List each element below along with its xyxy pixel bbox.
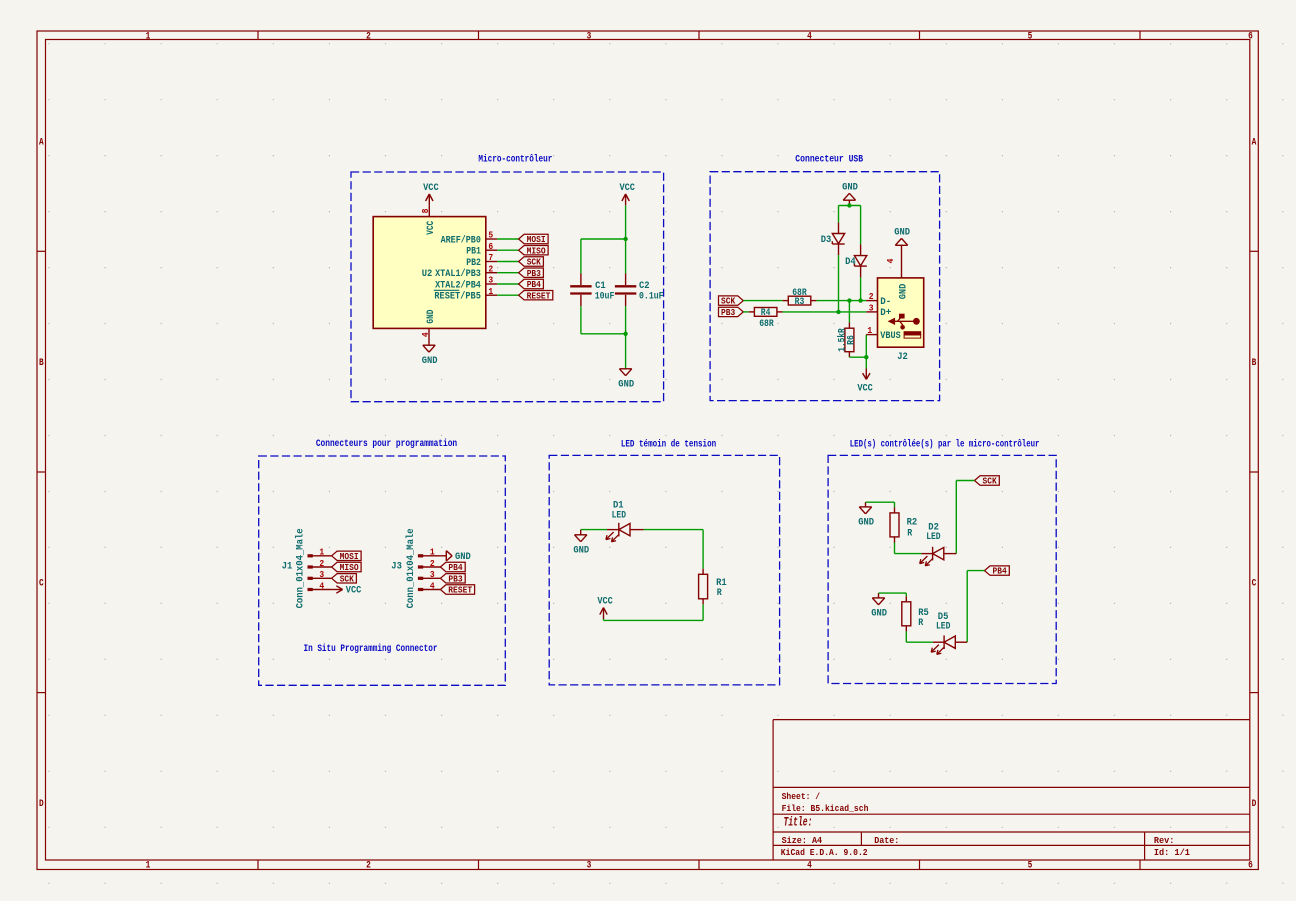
svg-text:10uF: 10uF [595, 291, 615, 302]
diode D4 pin [860, 266, 862, 277]
svg-text:1: 1 [146, 861, 151, 872]
wire [783, 311, 867, 313]
svg-text:R: R [717, 588, 723, 599]
wire [644, 529, 704, 531]
svg-text:J2: J2 [897, 352, 908, 363]
junction [847, 298, 851, 302]
svg-text:Id: 1/1: Id: 1/1 [1154, 847, 1190, 858]
wire [866, 501, 895, 503]
svg-text:Sheet: /: Sheet: / [782, 791, 821, 802]
global label SCK (J1) [332, 573, 357, 584]
wire [906, 641, 933, 643]
junction [623, 332, 627, 336]
J2 shield bar [904, 332, 921, 338]
wire [865, 357, 867, 368]
resistor R2 [890, 507, 899, 542]
svg-text:R6: R6 [846, 335, 857, 345]
svg-text:Conn_01x04_Male: Conn_01x04_Male [295, 528, 307, 608]
LED D5 [931, 635, 955, 654]
svg-text:A: A [39, 138, 44, 149]
svg-text:2: 2 [319, 558, 324, 569]
svg-text:D: D [39, 799, 44, 810]
resistor R1 [699, 569, 708, 605]
U2 pin 2 line [486, 272, 498, 274]
svg-text:PB4: PB4 [527, 279, 541, 290]
capacitor C2 [615, 273, 636, 306]
J1 pin 1 [308, 555, 332, 558]
U2 pin number 4 [420, 332, 431, 337]
wire [497, 238, 518, 240]
global label MOSI (J1) [332, 551, 362, 562]
svg-text:In Situ Programming Connector: In Situ Programming Connector [303, 643, 437, 655]
connector J2 body [878, 278, 924, 347]
global label RESET (J3) [440, 585, 474, 596]
LED D2 [920, 547, 944, 566]
global label SCK [719, 296, 744, 307]
svg-text:1: 1 [867, 325, 872, 336]
svg-text:RESET: RESET [448, 585, 472, 596]
power symbol VCC (flipped) [857, 369, 873, 395]
wire [966, 571, 968, 643]
wire [839, 205, 861, 207]
svg-text:0.1uF: 0.1uF [639, 291, 664, 302]
J3 pin 4 [418, 588, 440, 591]
global label PB4 [519, 279, 544, 290]
ground GND (below U2) [422, 345, 438, 367]
svg-text:R4: R4 [761, 308, 771, 319]
global label SCK [519, 257, 544, 268]
svg-text:4: 4 [807, 861, 812, 872]
wire [894, 502, 896, 507]
wire [849, 356, 866, 358]
svg-text:VCC: VCC [423, 183, 439, 194]
svg-text:2: 2 [430, 558, 435, 569]
svg-text:4: 4 [807, 32, 812, 43]
U2 pin 4 line [428, 328, 430, 345]
global label MISO [519, 245, 549, 256]
wire [497, 261, 518, 263]
svg-text:R3: R3 [795, 297, 805, 308]
diode D3 (zener) [832, 234, 844, 245]
wire [967, 570, 984, 572]
power symbol VCC (J1 pin 4) [332, 586, 362, 597]
J2 pin 2 line [866, 300, 877, 302]
svg-text:1: 1 [146, 32, 151, 43]
svg-text:AREF/PB0: AREF/PB0 [441, 234, 481, 246]
svg-text:D4: D4 [845, 257, 856, 268]
U2 pin 7 line [486, 261, 498, 263]
svg-text:GND: GND [618, 379, 634, 390]
svg-text:XTAL1/PB3: XTAL1/PB3 [435, 268, 481, 280]
svg-text:8: 8 [420, 208, 431, 213]
svg-text:3: 3 [319, 569, 324, 580]
svg-text:MOSI: MOSI [340, 551, 359, 562]
title block [773, 720, 1250, 860]
svg-text:6: 6 [488, 241, 493, 252]
note box Micro-controleur [351, 172, 664, 402]
note box Connecteurs pour programmation [259, 456, 506, 685]
wire [581, 238, 626, 240]
svg-text:Micro-contrôleur: Micro-contrôleur [478, 154, 552, 166]
note box Connecteur USB [710, 172, 940, 401]
ground GND (above J2) [894, 228, 910, 246]
svg-text:SCK: SCK [983, 476, 997, 487]
svg-text:VBUS: VBUS [880, 331, 900, 342]
overline on RESET [434, 289, 459, 291]
svg-text:2: 2 [488, 263, 493, 274]
wire [848, 301, 850, 323]
J3 pin 3 [418, 577, 440, 580]
wire [702, 604, 704, 620]
svg-text:B: B [39, 358, 44, 369]
LED D1 pin [630, 529, 643, 531]
svg-text:D+: D+ [880, 308, 891, 319]
svg-text:B: B [1252, 358, 1257, 369]
global label PB4 (LED) [985, 566, 1010, 577]
ground GND (top, flipped) [842, 182, 858, 205]
svg-text:RESET/PB5: RESET/PB5 [434, 291, 481, 303]
wire [702, 530, 704, 569]
J1 pin 2 [308, 566, 332, 569]
svg-text:GND: GND [422, 356, 438, 367]
value 1.5kR (rotated) [837, 328, 849, 352]
wire [625, 205, 627, 239]
resistor R6 [845, 323, 854, 358]
wire [580, 239, 582, 273]
wire [879, 592, 907, 594]
svg-text:C: C [39, 579, 44, 590]
junction [858, 298, 862, 302]
wire [625, 239, 627, 273]
junction [836, 310, 840, 314]
global label PB3 [519, 268, 544, 279]
global label SCK (LED) [975, 476, 1000, 487]
svg-text:GND: GND [894, 228, 910, 239]
wire [838, 206, 840, 223]
svg-text:File: B5.kicad_sch: File: B5.kicad_sch [782, 803, 869, 814]
svg-text:4: 4 [430, 580, 435, 591]
U2 pin 1 line [486, 294, 498, 296]
U2 pin 5 line [486, 238, 498, 240]
svg-text:PB3: PB3 [721, 307, 735, 318]
ground GND (R2) [858, 502, 874, 528]
wire [895, 553, 922, 555]
LED D5 pin [933, 641, 944, 643]
svg-text:PB4: PB4 [448, 562, 462, 573]
wire [816, 300, 866, 302]
svg-text:1: 1 [319, 547, 324, 558]
svg-text:LED: LED [612, 510, 626, 521]
svg-text:2: 2 [366, 861, 371, 872]
U2 pin name VCC (rotated) [426, 221, 437, 235]
wire [905, 631, 907, 642]
svg-text:MISO: MISO [340, 562, 359, 573]
J2 pin number 4 [885, 258, 896, 263]
J1 pin 4 [308, 588, 332, 591]
diode D3 pin [838, 244, 840, 255]
wire [955, 481, 957, 554]
diode D3 pin [838, 223, 840, 234]
U2 pin name GND (rotated) [426, 310, 437, 324]
svg-text:R: R [918, 618, 924, 629]
svg-text:1: 1 [430, 547, 435, 558]
wire [497, 272, 518, 274]
svg-text:2: 2 [869, 291, 874, 302]
svg-text:GND: GND [898, 284, 909, 300]
svg-text:3: 3 [430, 569, 435, 580]
svg-text:7: 7 [488, 252, 493, 263]
ground GND (below C2) [618, 369, 634, 391]
svg-text:PB4: PB4 [993, 566, 1007, 577]
svg-text:3: 3 [488, 275, 493, 286]
svg-text:5: 5 [1028, 861, 1033, 872]
svg-text:R2: R2 [907, 517, 918, 528]
J2 pin 1 line [866, 334, 877, 336]
wire [860, 277, 862, 300]
svg-text:LED(s) contrôlée(s) par le mic: LED(s) contrôlée(s) par le micro-contrôl… [850, 439, 1040, 451]
wire [625, 306, 627, 334]
svg-text:3: 3 [869, 303, 874, 314]
ground GND (R5) [871, 593, 887, 619]
svg-text:Conn_01x04_Male: Conn_01x04_Male [405, 528, 417, 608]
svg-text:D-: D- [880, 297, 891, 308]
svg-text:VCC: VCC [426, 221, 437, 235]
wire [894, 543, 896, 554]
capacitor C1 [570, 273, 591, 306]
svg-text:VCC: VCC [597, 597, 613, 608]
U2 pin 8 line [428, 205, 430, 216]
diode D4 pin [860, 244, 862, 255]
svg-text:MISO: MISO [527, 245, 546, 256]
svg-text:4: 4 [885, 258, 896, 263]
value Conn_01x04_Male (J1, rotated) [295, 528, 307, 608]
LED D2 pin [921, 553, 932, 555]
svg-text:PB3: PB3 [448, 573, 462, 584]
wire [905, 593, 907, 596]
svg-text:Title:: Title: [784, 815, 813, 830]
svg-text:D3: D3 [821, 235, 832, 246]
svg-text:Connecteur USB: Connecteur USB [795, 155, 863, 166]
U2 pin number 8 [420, 208, 431, 213]
svg-text:R1: R1 [716, 578, 727, 589]
svg-text:2: 2 [366, 32, 371, 43]
svg-text:J3: J3 [391, 562, 402, 573]
svg-text:VCC: VCC [346, 586, 362, 597]
svg-text:3: 3 [587, 32, 592, 43]
LED D1 [606, 523, 630, 542]
svg-text:C: C [1252, 579, 1257, 590]
svg-text:SCK: SCK [527, 257, 541, 268]
diode D4 (zener) [854, 256, 866, 267]
svg-text:Rev:: Rev: [1154, 835, 1175, 846]
junction [864, 355, 868, 359]
svg-text:6: 6 [1248, 861, 1253, 872]
svg-text:6: 6 [1248, 32, 1253, 43]
wire [497, 294, 518, 296]
svg-text:68R: 68R [759, 319, 774, 330]
LED D2 pin [944, 553, 956, 555]
wire [865, 335, 867, 358]
wire [581, 333, 626, 335]
wire [743, 300, 782, 302]
ground GND (D1) [573, 530, 589, 557]
svg-text:5: 5 [1028, 32, 1033, 43]
svg-text:LED: LED [936, 622, 950, 633]
power symbol VCC (top of U2) [423, 183, 439, 205]
wire [956, 480, 974, 482]
resistor R3 [783, 296, 817, 305]
global label MOSI [519, 234, 549, 245]
svg-text:D: D [1252, 799, 1257, 810]
J2 pin name GND (rotated) [898, 284, 909, 300]
value Conn_01x04_Male (J3, rotated) [405, 528, 417, 608]
svg-text:PB3: PB3 [527, 268, 541, 279]
svg-text:PB2: PB2 [466, 258, 481, 269]
svg-text:SCK: SCK [721, 296, 735, 307]
svg-text:U2: U2 [422, 269, 433, 280]
USB icon (J2) [889, 314, 920, 329]
svg-text:J1: J1 [282, 562, 293, 573]
power symbol VCC (decoupling) [619, 183, 635, 205]
global label PB3 [719, 307, 744, 318]
svg-text:GND: GND [842, 182, 858, 193]
svg-text:GND: GND [871, 609, 887, 620]
global label RESET [519, 290, 553, 301]
global label PB4 (J3) [440, 562, 465, 573]
wire [743, 311, 749, 313]
ground GND (J3 pin 1) [446, 551, 471, 563]
junction [847, 203, 851, 207]
J2 pin 3 line [866, 311, 877, 313]
svg-text:4: 4 [319, 580, 324, 591]
svg-text:GND: GND [426, 310, 437, 324]
svg-text:PB1: PB1 [466, 247, 481, 258]
svg-text:VCC: VCC [619, 183, 635, 194]
note box LED(s) controlee(s) [828, 455, 1056, 683]
power symbol VCC (D1) [597, 597, 613, 619]
svg-text:VCC: VCC [857, 384, 873, 395]
note box LED temoin de tension [549, 455, 779, 685]
svg-text:GND: GND [573, 545, 589, 556]
svg-text:RESET: RESET [527, 290, 551, 301]
J3 pin 2 [418, 566, 440, 569]
svg-text:Connecteurs pour programmation: Connecteurs pour programmation [316, 438, 457, 450]
wire [604, 619, 704, 621]
wire [581, 529, 607, 531]
resistor R4 [749, 308, 783, 317]
wire [497, 249, 518, 251]
svg-text:5: 5 [488, 230, 493, 241]
U2 pin 3 line [486, 283, 498, 285]
svg-text:XTAL2/PB4: XTAL2/PB4 [435, 279, 481, 291]
IC U2 body [373, 217, 486, 329]
wire [580, 306, 582, 334]
svg-text:LED: LED [926, 532, 940, 543]
J2 pin 4 line [901, 245, 903, 278]
svg-text:R: R [907, 528, 913, 539]
reference R6 (rotated) [846, 335, 857, 345]
svg-text:4: 4 [420, 332, 431, 337]
junction [623, 237, 627, 241]
U2 pin 6 line [486, 249, 498, 251]
wire [497, 283, 518, 285]
global label MISO (J1) [332, 562, 362, 573]
resistor R5 [902, 596, 911, 631]
J1 pin 3 [308, 577, 332, 580]
svg-text:3: 3 [587, 861, 592, 872]
svg-text:A: A [1252, 138, 1257, 149]
wire [603, 619, 605, 621]
svg-text:Size: A4: Size: A4 [782, 835, 823, 846]
svg-text:KiCad E.D.A. 9.0.2: KiCad E.D.A. 9.0.2 [781, 847, 868, 858]
LED D5 pin [956, 641, 968, 643]
wire [838, 255, 840, 312]
global label PB3 (J3) [440, 573, 465, 584]
svg-text:SCK: SCK [340, 573, 354, 584]
wire [625, 334, 627, 369]
svg-text:Date:: Date: [874, 835, 899, 846]
svg-text:MOSI: MOSI [527, 234, 546, 245]
svg-text:LED témoin de tension: LED témoin de tension [621, 439, 716, 451]
svg-text:1: 1 [488, 286, 493, 297]
wire [860, 206, 862, 245]
svg-text:GND: GND [858, 518, 874, 529]
LED D1 pin [607, 529, 619, 531]
J3 pin 1 [418, 555, 446, 558]
